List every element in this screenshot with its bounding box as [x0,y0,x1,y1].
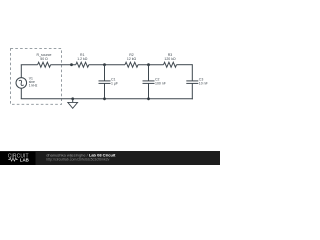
capacitor C1 plates [99,80,111,82]
resistor R_source [38,62,51,67]
capacitor C1 branch top wire [104,65,106,81]
junction: C1 bottom [103,97,106,100]
wire: R3 to top-right corner [177,64,193,66]
V1 sine glyph [18,80,25,87]
CircuitLab logo resistor zigzag [8,158,17,161]
footer bar [0,151,220,165]
capacitor C2 branch top wire [148,65,150,81]
wire V1 bottom lead [20,88,22,99]
junction: C2 bottom [147,97,150,100]
svg-text:1 kHz: 1 kHz [29,84,38,88]
wire: R1 to R2 [89,64,125,66]
capacitor C3 plates [186,80,198,82]
svg-text:1 µF: 1 µF [111,82,118,86]
junction node after dashed box [70,63,73,66]
junction: ground node [71,97,74,100]
junction node B (C2 top) [147,63,150,66]
svg-text:1.2 kΩ: 1.2 kΩ [77,57,88,61]
wire: R2 to R3 [138,64,164,66]
capacitor C2 plates [143,80,155,82]
ground symbol [68,102,78,108]
svg-text:LAB: LAB [20,158,29,163]
wire V1 top lead [20,65,22,78]
capacitor C1 bottom lead [104,83,106,98]
ground stub wire [72,99,74,103]
resistor R1 [76,62,89,67]
svg-text:12 kΩ: 12 kΩ [127,57,137,61]
svg-text:100 nF: 100 nF [155,82,166,86]
source enclosure dashed box [11,49,62,105]
svg-text:http://circuitlab.com/c6rfe6dc: http://circuitlab.com/c6rfe6dc5c3cf6mk2v [46,158,109,162]
resistor R2 [125,62,138,67]
wire: R_source to R1 [51,64,76,66]
bottom return wire [21,98,193,100]
junction node A (C1 top) [103,63,106,66]
wire top: V1 to R_source [21,64,38,66]
resistor R3 [164,62,177,67]
svg-text:120 kΩ: 120 kΩ [164,57,176,61]
right edge wire top (C3 top lead) [191,64,193,81]
capacitor C3 bottom lead [191,83,193,99]
capacitor C2 bottom lead [148,83,150,98]
svg-text:50 Ω: 50 Ω [40,57,48,61]
voltage source V1 [16,78,27,89]
svg-text:10 nF: 10 nF [199,82,208,86]
